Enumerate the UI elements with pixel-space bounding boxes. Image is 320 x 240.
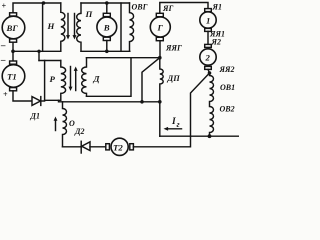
motor 2 circle xyxy=(200,49,216,65)
svg-text:2: 2 xyxy=(205,53,211,63)
wire diagonal shunt from ЯЯГ node xyxy=(142,58,160,102)
winding Р top edge xyxy=(39,60,61,62)
svg-text:ЯЯ2: ЯЯ2 xyxy=(219,65,235,74)
svg-text:ЯГ: ЯГ xyxy=(162,4,174,13)
wire diode Д1 to winding Р xyxy=(41,100,45,102)
node junction dot В bottom xyxy=(105,50,109,54)
wire jog from bus down to winding Р top xyxy=(38,51,40,60)
machine Т1 brush top xyxy=(10,61,17,64)
generator Г brush bottom xyxy=(156,37,163,40)
wire motor 2 bottom to node xyxy=(208,69,210,73)
motor 2 brush top xyxy=(205,44,212,47)
svg-text:Д2: Д2 xyxy=(74,127,84,136)
machine Т2 circle xyxy=(111,138,128,155)
wire Т2 to bottom right corner xyxy=(133,136,190,147)
wire Т1 bottom to diode Д1 xyxy=(13,91,32,101)
node junction dot motor2 bottom xyxy=(208,71,212,75)
svg-text:П: П xyxy=(85,9,94,19)
svg-text:Г: Г xyxy=(157,23,164,33)
wire ЯЯГ bus to winding Д xyxy=(87,57,160,59)
exciter В brush top xyxy=(103,13,110,16)
winding ОВГ left edge xyxy=(120,3,122,51)
wire diode Д2 to Т2 xyxy=(90,146,106,148)
svg-text:ВГ: ВГ xyxy=(6,23,19,33)
svg-text:Д1: Д1 xyxy=(30,112,40,121)
arrow Iг direction left xyxy=(167,128,182,130)
node junction dot bus to winding Р xyxy=(37,50,40,53)
wire exciter loop top xyxy=(81,2,130,4)
winding Н left edge xyxy=(42,3,44,51)
svg-text:Н: Н xyxy=(47,21,56,31)
exciter В brush bottom xyxy=(103,37,110,40)
svg-text:1: 1 xyxy=(206,16,210,26)
motor 1 brush top xyxy=(205,9,212,12)
winding Р left edge xyxy=(44,61,46,101)
winding Д coil xyxy=(82,58,87,97)
wire top bus Г to motor 1 xyxy=(160,3,208,14)
svg-text:г: г xyxy=(177,119,180,129)
wire В top stub xyxy=(106,3,108,13)
machine Т1 brush bottom xyxy=(10,88,17,91)
svg-text:–: – xyxy=(0,40,6,50)
wire Г bottom stub to ЯЯГ junction xyxy=(159,41,161,58)
svg-text:ЯЯГ: ЯЯГ xyxy=(165,44,182,53)
svg-text:ДП: ДП xyxy=(167,74,181,83)
wire bottom right bus xyxy=(160,135,239,137)
winding Н coil xyxy=(61,3,65,51)
generator ВГ brush top xyxy=(10,13,17,16)
coil ОВ1 and ОВ2 chain xyxy=(210,73,214,136)
arrow flux down right (top row) xyxy=(74,14,76,36)
svg-text:+: + xyxy=(2,2,7,11)
diode Д1 xyxy=(32,97,41,106)
arrow flux up at coil О xyxy=(55,120,57,131)
winding ОВГ coil xyxy=(130,3,134,51)
svg-text:Д: Д xyxy=(93,74,101,84)
winding Р bottom edge xyxy=(45,99,61,101)
generator ВГ circle xyxy=(2,16,25,39)
motor 1 circle xyxy=(200,12,216,28)
machine Т2 brush left xyxy=(106,144,110,150)
wire negative bus with winding Н bottom edge xyxy=(13,50,61,52)
svg-text:ОВГ: ОВГ xyxy=(132,3,148,12)
svg-text:Я1: Я1 xyxy=(212,3,223,12)
winding Д right edge and bottom xyxy=(87,58,132,97)
svg-text:ОВ2: ОВ2 xyxy=(220,105,235,114)
wire motor1 to motor2 xyxy=(207,31,209,44)
wire В bottom stub xyxy=(106,41,108,52)
node junction dot ВГ/Т1/bus xyxy=(11,50,15,54)
machine Т1 circle xyxy=(2,65,25,88)
wire field shunt diagonal from motor2 node xyxy=(191,73,210,136)
node junction dot ЯЯГ xyxy=(158,56,162,60)
coil О xyxy=(63,102,67,147)
svg-text:I: I xyxy=(171,117,176,127)
node junction dot shunt to bus xyxy=(140,100,144,104)
wire coil О to diode Д2 xyxy=(63,146,82,148)
node junction dot В top xyxy=(105,1,109,5)
wire ВГ minus down to negative bus xyxy=(12,42,14,51)
node junction dot bus/Н left xyxy=(42,1,46,5)
generator Г circle xyxy=(150,17,170,37)
exciter В circle xyxy=(97,17,117,37)
svg-text:+: + xyxy=(3,90,8,99)
wire top bus from ВГ+ to winding Н xyxy=(13,3,61,13)
node junction dot ОВ2 to bus xyxy=(208,134,212,138)
svg-text:–: – xyxy=(0,55,6,65)
generator ВГ brush bottom xyxy=(10,39,17,42)
arrow flux down left (top row) xyxy=(67,14,69,36)
wire exciter loop bottom xyxy=(81,50,130,52)
svg-text:Я2: Я2 xyxy=(211,38,222,47)
winding Р coil xyxy=(61,61,66,101)
motor 1 brush bottom xyxy=(205,28,212,31)
arrow flux down (middle row) xyxy=(70,67,72,88)
arrow flux up (middle row) xyxy=(75,70,77,91)
svg-text:Т2: Т2 xyxy=(113,142,123,152)
generator Г brush top xyxy=(156,13,163,16)
wire bottom bus under windings xyxy=(59,100,160,102)
svg-text:В: В xyxy=(103,23,110,33)
wire Т1 top stub xyxy=(12,51,14,61)
svg-text:Р: Р xyxy=(50,74,56,84)
coil П xyxy=(77,3,81,51)
coil ДП xyxy=(160,58,163,102)
svg-text:Т1: Т1 xyxy=(7,72,17,82)
diode Д2 xyxy=(82,142,90,151)
motor 2 brush bottom xyxy=(205,66,212,69)
machine Т2 brush right xyxy=(130,144,134,150)
svg-text:ОВ1: ОВ1 xyxy=(220,83,235,92)
wire Iг drop from bus to bottom xyxy=(159,102,161,136)
node junction dot ДП to bus xyxy=(158,100,162,104)
